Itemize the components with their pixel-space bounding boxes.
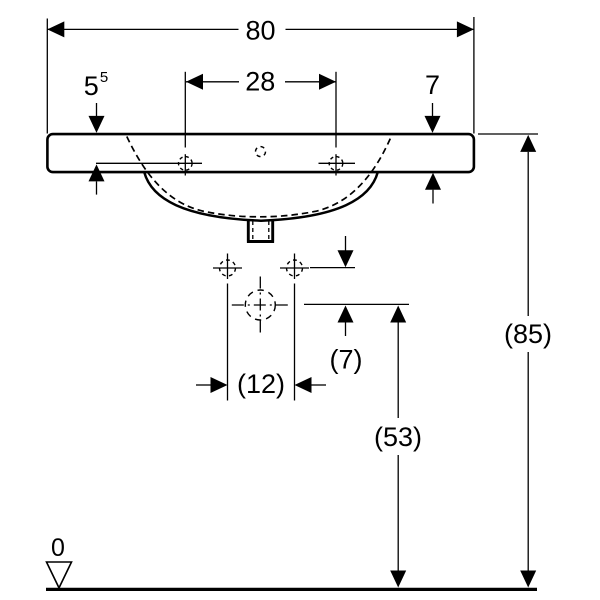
floor line xyxy=(46,588,537,591)
drain trap circle (dashed) xyxy=(232,277,289,334)
svg-text:(7): (7) xyxy=(330,345,363,375)
dimension 7 up arrow xyxy=(425,173,441,204)
dimension 80 xyxy=(47,15,474,45)
svg-text:7: 7 xyxy=(425,70,440,100)
datum triangle xyxy=(47,562,72,588)
dimension (7) reference line bottom (drain level) xyxy=(304,303,409,305)
dimension 28 extension line right xyxy=(335,72,337,148)
svg-text:80: 80 xyxy=(245,15,275,45)
dimension (7) up arrow xyxy=(338,306,354,337)
dimension 7 down arrow xyxy=(425,103,441,133)
overflow hole (dashed circle) xyxy=(256,147,266,157)
tap hole left horizontal centerline / 5.5 extension line xyxy=(96,162,202,164)
svg-text:0: 0 xyxy=(51,534,65,562)
tap hole right horizontal centerline xyxy=(319,162,356,164)
dimension 5.5 up arrow xyxy=(89,164,105,194)
dimension (7) down arrow xyxy=(338,236,354,267)
basin bowl outline xyxy=(144,172,378,221)
dimension (53) line xyxy=(374,306,422,588)
dimension 28 xyxy=(186,66,336,96)
drain stub xyxy=(247,220,274,242)
dimension 28 extension line left xyxy=(184,72,186,148)
svg-text:(53): (53) xyxy=(374,422,422,452)
svg-text:(12): (12) xyxy=(237,369,285,399)
dimension (85) line xyxy=(504,135,552,588)
dimension 80 extension line right xyxy=(473,17,475,134)
dimension (12) right arrow xyxy=(295,377,327,393)
tap hole right xyxy=(329,154,343,175)
svg-text:5: 5 xyxy=(84,71,99,101)
fixing hole left xyxy=(213,254,242,280)
dimension 5.5 down arrow xyxy=(89,103,105,133)
basin inner rim (dashed) xyxy=(127,137,391,217)
dimension (12) extension line right xyxy=(294,284,296,401)
dimension 5.5 label xyxy=(84,69,108,101)
drain stub inner hidden edges (dashed) xyxy=(253,221,269,239)
fixing hole right xyxy=(280,254,309,280)
washbasin slab outline xyxy=(47,134,474,172)
dimension (85) extension line xyxy=(478,133,538,135)
svg-text:5: 5 xyxy=(100,69,108,86)
dimension 80 extension line left xyxy=(46,19,48,134)
tap hole left xyxy=(179,154,193,175)
svg-text:28: 28 xyxy=(245,66,275,96)
dimension (7) reference line top (fixing holes level) xyxy=(310,267,355,269)
dimension (12) left arrow xyxy=(196,377,228,393)
dimension (12) extension line left xyxy=(227,284,229,401)
svg-text:(85): (85) xyxy=(504,319,552,349)
